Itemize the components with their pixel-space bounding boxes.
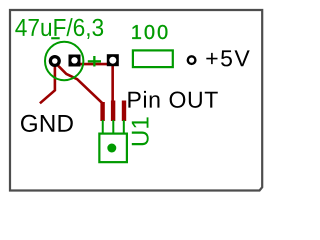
- capacitor C1 outline: [45, 42, 83, 80]
- trace pad1 to pin1: [57, 64, 103, 103]
- resistor value 100: [132, 25, 167, 39]
- pad trace pin 2: [111, 101, 115, 122]
- polarity plus mark: [88, 60, 101, 62]
- value label 47uF/6,3: [15, 18, 103, 39]
- label GND: [21, 115, 73, 132]
- pin 2 of U1: [112, 120, 114, 134]
- pin 1 of U1: [102, 120, 104, 134]
- pad trace pin 1: [100, 102, 104, 121]
- pad 3: [107, 54, 119, 66]
- border frame: [10, 10, 262, 191]
- trace pad2 to pin2: [75, 64, 113, 101]
- label Pin OUT: [128, 91, 217, 108]
- pad trace pin 3: [122, 101, 126, 122]
- resistor R1 outline: [133, 50, 173, 67]
- transistor U1 body: [99, 134, 127, 163]
- U1 dot marker: [107, 144, 116, 153]
- label +5V: [206, 50, 249, 66]
- pad 2 (cap positive): [69, 55, 81, 67]
- polarity minus mark: [51, 37, 60, 39]
- trace pad1 to GND: [40, 62, 55, 103]
- pin 3 of U1: [123, 120, 125, 134]
- reference designator U1: [132, 117, 149, 145]
- pad 1 (cap negative): [49, 55, 61, 67]
- +5V pad: [188, 56, 196, 64]
